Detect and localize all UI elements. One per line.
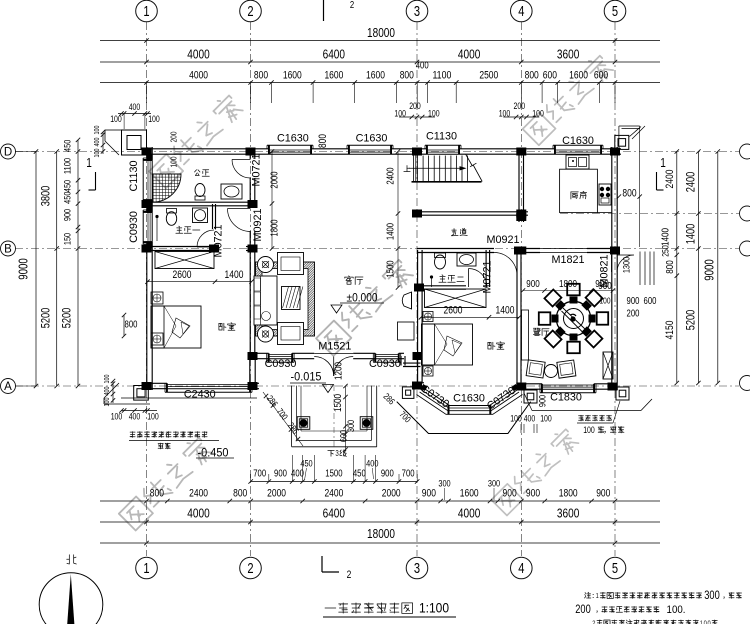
svg-text:800: 800	[317, 134, 329, 148]
decor column dining-left	[524, 390, 537, 403]
svg-text:100: 100	[94, 148, 101, 157]
svg-text:100: 100	[510, 414, 522, 424]
svg-text:400: 400	[416, 61, 429, 72]
svg-text:700: 700	[402, 468, 415, 479]
column 24	[209, 245, 219, 253]
column 21	[248, 200, 258, 208]
kitchen island	[560, 169, 598, 212]
svg-text:2: 2	[350, 0, 355, 11]
svg-text:2400: 2400	[684, 171, 698, 192]
wall bottom bedroom1 left	[143, 382, 167, 384]
axis line 2	[250, 22, 252, 556]
dim right col2	[684, 149, 701, 385]
toilet bath1	[195, 184, 205, 201]
note sanshui	[130, 432, 207, 438]
wall bath1 divider	[147, 201, 250, 203]
watermark 2 图纸之家	[522, 53, 615, 146]
note yutong	[158, 443, 170, 449]
section mark 1 right	[657, 155, 666, 190]
axis bubble 2 top	[240, 0, 262, 22]
svg-text:800: 800	[233, 487, 247, 499]
svg-text:450: 450	[300, 458, 312, 469]
axis bubble 1 top	[136, 0, 158, 22]
wall bath1b right	[212, 204, 214, 229]
axis bubble 3 bottom	[406, 557, 428, 579]
door M0821 swing	[617, 255, 634, 272]
svg-text:5: 5	[612, 561, 618, 577]
svg-text:900: 900	[596, 487, 610, 499]
axis bubble D left	[1, 144, 16, 159]
title underline	[323, 616, 456, 618]
svg-text:0: 0	[708, 619, 711, 624]
wall bedroom1 right mid	[249, 178, 251, 208]
wall bedroom1 right upper	[249, 149, 251, 159]
svg-text:1400: 1400	[386, 223, 397, 241]
dim inner living right 2400/1400/1500	[386, 149, 401, 289]
svg-text:1500: 1500	[325, 468, 343, 479]
door M0821 opening	[611, 255, 613, 272]
svg-text:2000: 2000	[382, 487, 401, 499]
svg-text:900: 900	[63, 209, 74, 221]
svg-text:400: 400	[291, 468, 304, 479]
wall bottom bedroom1 right	[250, 382, 259, 384]
dim small SW horiz	[111, 408, 159, 421]
kitchen stove	[599, 184, 611, 205]
svg-text:100: 100	[147, 412, 159, 422]
svg-text:1800: 1800	[270, 219, 281, 237]
svg-text:400: 400	[524, 414, 536, 424]
axis bubble right partial	[740, 144, 750, 159]
svg-text:2: 2	[247, 561, 253, 577]
svg-text:4: 4	[518, 561, 524, 577]
column 15	[610, 247, 620, 255]
axis line C	[560, 213, 739, 215]
shower head bath2	[430, 275, 433, 287]
column 12	[412, 210, 422, 218]
note sanshui underline	[129, 439, 219, 441]
svg-text:400: 400	[366, 458, 378, 469]
svg-text:900: 900	[422, 487, 436, 499]
compass needle	[67, 574, 74, 624]
section mark 2 top	[324, 0, 355, 21]
label 卧室2	[488, 342, 504, 350]
wall front dining left	[526, 383, 542, 385]
pier left wall b	[147, 200, 153, 214]
steps outside M0821	[640, 252, 654, 286]
svg-text:2000: 2000	[270, 171, 281, 189]
svg-text:2: 2	[592, 619, 595, 624]
hip line top-right	[630, 127, 642, 137]
svg-text:1600: 1600	[283, 70, 302, 82]
svg-text:，: ，	[603, 426, 611, 435]
axis line D	[15, 151, 739, 153]
svg-text:A: A	[4, 381, 12, 393]
bay jamb mid-right	[489, 405, 491, 415]
axis line 3	[416, 22, 418, 556]
svg-text:M0721: M0721	[213, 224, 225, 257]
note line2	[575, 602, 685, 616]
title 一层平面布置图	[325, 603, 413, 614]
stair label 上	[404, 166, 410, 172]
column 1	[142, 148, 152, 156]
svg-text:5: 5	[612, 4, 618, 20]
svg-text:400: 400	[129, 102, 141, 112]
svg-text:6400: 6400	[323, 47, 345, 62]
bed bedroom1	[151, 306, 201, 348]
svg-text:C0930: C0930	[128, 211, 140, 243]
svg-text:2400: 2400	[324, 487, 343, 499]
window C1830	[540, 392, 596, 394]
wall top seg4	[459, 148, 555, 150]
svg-text:M0921: M0921	[252, 208, 264, 241]
svg-text:M0821: M0821	[599, 254, 611, 287]
svg-text:200: 200	[169, 131, 179, 142]
svg-text:800: 800	[125, 320, 138, 331]
wardrobe bedroom1	[155, 252, 214, 269]
svg-text:18000: 18000	[367, 25, 395, 40]
column 20	[608, 383, 618, 391]
svg-text:3: 3	[414, 4, 420, 20]
decor column bottom-left	[134, 386, 149, 401]
svg-text:2600: 2600	[173, 269, 192, 281]
nightstand bedroom2 a	[423, 312, 433, 322]
svg-text:100: 100	[94, 125, 101, 134]
svg-text:4000: 4000	[458, 505, 480, 520]
svg-text:C2430: C2430	[184, 389, 216, 401]
label 走道	[451, 228, 467, 235]
window C1630 a	[267, 144, 313, 146]
wall kitchen left	[518, 149, 520, 222]
porch centerline	[333, 385, 335, 450]
svg-text:1600: 1600	[324, 70, 343, 82]
svg-text:M1821: M1821	[551, 254, 584, 266]
svg-text:1300: 1300	[622, 257, 633, 273]
wall front living right	[399, 352, 404, 354]
svg-text:M1521: M1521	[318, 341, 351, 353]
svg-text:1400: 1400	[225, 269, 244, 281]
door M0721 bath1b swing2	[197, 246, 214, 248]
wall front living left	[250, 352, 269, 354]
dim small near axis1 top	[110, 102, 160, 129]
svg-text:450: 450	[353, 468, 366, 479]
svg-text:2000: 2000	[267, 487, 286, 499]
bay eave outline	[397, 402, 531, 434]
svg-text:300: 300	[438, 479, 450, 490]
svg-text:，: ，	[722, 591, 729, 600]
svg-text:1100: 1100	[432, 70, 451, 82]
wall right dining lower	[611, 272, 613, 390]
kitchen counter bottom line	[597, 212, 612, 214]
column 8	[142, 382, 152, 390]
svg-text:300: 300	[488, 479, 500, 490]
door M0921 vestibule leaf	[228, 208, 251, 210]
column 10	[248, 382, 258, 390]
svg-text:100: 100	[104, 374, 111, 383]
svg-text:1800: 1800	[559, 278, 577, 290]
svg-text:1400: 1400	[660, 228, 672, 246]
section mark 2 bottom	[322, 556, 351, 581]
svg-text:600: 600	[594, 70, 608, 82]
column 6	[142, 200, 152, 208]
wall top seg5	[601, 148, 621, 150]
dim small left top	[94, 125, 105, 157]
svg-text:C1630: C1630	[356, 133, 388, 145]
svg-text:100: 100	[148, 114, 160, 124]
brick note	[579, 415, 612, 421]
svg-text:4000: 4000	[187, 47, 209, 62]
svg-text:5200: 5200	[684, 309, 698, 330]
wall corridor bottom b	[517, 248, 521, 250]
decor column top-right	[615, 135, 629, 149]
level mark living	[331, 291, 384, 314]
axis bubble 2 bottom	[240, 557, 262, 579]
column 2	[246, 148, 256, 156]
bay jamb left	[421, 384, 428, 391]
porch step label 下3级	[328, 449, 347, 458]
column 18	[514, 247, 524, 255]
wall top D (axis1-axis2)	[143, 148, 269, 150]
svg-text:700: 700	[253, 468, 266, 479]
wall bedroom1 right low	[249, 231, 251, 356]
bedroom1 interior dim	[145, 269, 253, 284]
wardrobe bedroom2	[425, 289, 487, 308]
right landing hip	[632, 126, 645, 139]
level mark entrance	[290, 370, 326, 384]
wall top seg3	[391, 148, 427, 150]
dim small near axis top	[394, 101, 439, 119]
svg-text:4: 4	[518, 4, 524, 20]
axis line A	[15, 385, 739, 387]
porch column left	[297, 417, 310, 430]
svg-text:1500: 1500	[386, 260, 397, 278]
compass circle	[39, 573, 103, 624]
label 厨房	[571, 191, 587, 199]
axis bubble 4 bottom	[511, 557, 533, 579]
column 4	[516, 148, 526, 156]
dim small near axis top	[499, 101, 544, 119]
label 卧室1	[219, 323, 235, 331]
svg-text:C0930: C0930	[369, 358, 401, 370]
door kitchen M1821 opening	[519, 159, 524, 161]
dim right 900/600	[627, 296, 657, 320]
dim left 3800/5200	[39, 149, 59, 388]
dim small left bot	[104, 374, 115, 406]
dim right col1	[660, 149, 680, 385]
bay window band	[417, 387, 523, 414]
wall kitchen bottom right	[587, 248, 618, 250]
svg-text:800: 800	[622, 188, 636, 200]
porch dim line	[343, 384, 347, 452]
svg-text:-0.015: -0.015	[291, 370, 322, 384]
svg-text:1: 1	[86, 155, 92, 170]
svg-text:C0930: C0930	[265, 358, 297, 370]
svg-text:9000: 9000	[17, 258, 31, 280]
dim inner left 2000/1800	[270, 149, 281, 250]
axis line 4	[520, 22, 522, 556]
svg-text:1: 1	[143, 4, 149, 20]
dim row detail top	[100, 61, 660, 104]
svg-text:100: 100	[428, 109, 440, 119]
svg-text:100: 100	[110, 114, 122, 124]
dim row 18000 top	[100, 25, 660, 43]
svg-text:1:100: 1:100	[419, 600, 449, 616]
column 9	[248, 245, 258, 253]
svg-text:800: 800	[525, 70, 539, 82]
svg-text:D: D	[4, 147, 12, 159]
svg-text:450: 450	[63, 192, 74, 204]
svg-text:3800: 3800	[39, 185, 53, 206]
svg-text:2400: 2400	[386, 167, 397, 185]
axis bubble A left	[1, 379, 16, 394]
axis bubble 1 bottom	[136, 557, 158, 579]
svg-text:B: B	[4, 244, 12, 256]
nightstand bedroom2 b	[423, 366, 433, 376]
svg-text:2400: 2400	[189, 487, 208, 499]
toilet bath2	[435, 253, 446, 269]
svg-text:900: 900	[381, 468, 394, 479]
svg-text:0: 0	[704, 619, 707, 624]
svg-text:100: 100	[583, 425, 595, 435]
decor column bay-left	[402, 387, 414, 399]
bed bedroom2	[422, 324, 473, 365]
svg-text:300: 300	[704, 588, 720, 602]
axis line 5	[614, 22, 616, 556]
dining eave	[532, 410, 641, 412]
wall front living mid-r	[353, 352, 375, 354]
porch diag dim line	[263, 392, 303, 446]
label 客厅	[345, 276, 363, 285]
wall bedroom2/dining	[516, 250, 518, 385]
column 7	[142, 245, 152, 253]
svg-text:1600: 1600	[460, 487, 479, 499]
column 11	[248, 352, 258, 360]
compass label 北	[67, 555, 77, 564]
column 5	[610, 148, 620, 156]
svg-text:C1630: C1630	[562, 135, 594, 147]
svg-text:600: 600	[543, 70, 557, 82]
dim row porch bottom	[248, 455, 419, 484]
dim row2 bottom	[100, 479, 660, 504]
window C2430	[165, 391, 252, 393]
column 3	[412, 148, 422, 156]
wall bath2 right	[485, 250, 487, 287]
svg-text:4000: 4000	[189, 70, 208, 82]
svg-text:3600: 3600	[557, 47, 579, 62]
flue dining	[603, 352, 613, 379]
label 餐厅	[533, 328, 549, 335]
svg-text:C1130: C1130	[426, 131, 457, 143]
axis bubble 3 top	[406, 0, 428, 22]
watermark 1 图纸之家	[148, 92, 244, 188]
svg-text:900: 900	[526, 487, 540, 499]
svg-text:1800: 1800	[559, 487, 578, 499]
column 13	[516, 210, 526, 218]
svg-text:6400: 6400	[323, 505, 345, 520]
decor column top-left	[122, 130, 147, 155]
wall right dining upper	[611, 255, 613, 272]
svg-text:2: 2	[347, 569, 352, 581]
column 17	[412, 382, 422, 390]
svg-text:100: 100	[169, 156, 179, 167]
svg-text:900: 900	[274, 468, 287, 479]
svg-text:800: 800	[400, 70, 414, 82]
svg-text:1200: 1200	[333, 362, 345, 380]
hip bottom-left	[104, 383, 119, 398]
tv stand living	[398, 322, 415, 340]
bay eave outline	[397, 402, 531, 434]
wall front jog	[400, 356, 402, 366]
watermark 4 图纸之家	[118, 435, 214, 531]
window C0930 front left	[267, 361, 294, 363]
staircase	[409, 155, 482, 182]
tv set living	[402, 292, 411, 309]
svg-text:100: 100	[600, 296, 611, 306]
note line3	[592, 619, 717, 624]
svg-text:4150: 4150	[664, 321, 676, 340]
svg-text::: :	[592, 591, 595, 600]
svg-text:800: 800	[150, 487, 164, 499]
decor column dining-right	[616, 387, 629, 400]
wall left lower	[146, 242, 148, 390]
svg-text:900: 900	[627, 296, 640, 307]
nightstand bedroom1 b	[151, 333, 163, 345]
svg-text:2: 2	[247, 4, 253, 20]
axis bubble right partial	[740, 206, 750, 221]
shower bath1	[151, 172, 182, 203]
axis bubble right partial	[740, 376, 750, 391]
svg-text:900: 900	[538, 395, 549, 407]
svg-text:1400: 1400	[684, 223, 698, 244]
wall bath2 bottom	[418, 285, 466, 287]
svg-text:18000: 18000	[367, 526, 395, 541]
svg-text:4000: 4000	[187, 505, 209, 520]
svg-text:C1130: C1130	[128, 160, 140, 191]
label 公卫	[195, 170, 210, 176]
svg-text:100: 100	[111, 412, 123, 422]
level triangle entrance	[323, 385, 334, 393]
window C1630 b	[347, 144, 393, 146]
axis bubble 5 bottom	[604, 557, 626, 579]
nightstand bedroom1 a	[151, 292, 163, 304]
brick note2	[583, 425, 624, 435]
label 主卫一	[176, 226, 200, 233]
svg-text:800: 800	[254, 70, 268, 82]
watermark 5 图纸之家	[490, 426, 580, 516]
door M1521 leafs	[314, 357, 334, 377]
note line1b	[722, 591, 741, 600]
svg-text:M0921: M0921	[486, 234, 519, 246]
wall kitchen bottom left	[521, 248, 540, 250]
axis line B	[15, 248, 739, 250]
sink bath1	[221, 184, 242, 199]
svg-text:200: 200	[575, 602, 591, 616]
svg-text:9000: 9000	[703, 259, 717, 281]
column 23	[516, 213, 526, 221]
axis line 1	[146, 22, 148, 556]
svg-text:200: 200	[409, 101, 421, 111]
door M0721 bath2 leaf	[468, 269, 470, 288]
svg-text:1400: 1400	[496, 305, 515, 317]
wall corridor top	[417, 211, 528, 213]
wall left upper	[146, 147, 148, 160]
svg-text:2500: 2500	[479, 70, 498, 82]
shower head bath1b	[155, 215, 158, 241]
wall top seg2	[311, 148, 349, 150]
dim row spans top	[100, 47, 660, 65]
dim right 800 landing	[617, 126, 642, 247]
svg-text:2400: 2400	[664, 170, 676, 189]
kitchen sink	[566, 155, 589, 169]
